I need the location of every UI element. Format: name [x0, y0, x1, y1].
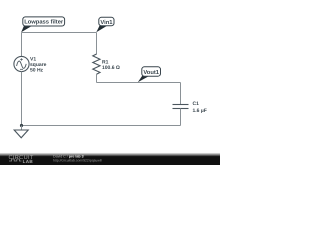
footer title text [53, 154, 84, 158]
callout "Lowpass filter" [21, 17, 64, 32]
junction dot at ground node [20, 124, 23, 127]
svg-text:http://circuitlab.com/922rpqsu: http://circuitlab.com/922rpqsuw8 [53, 158, 102, 162]
ground symbol [14, 130, 28, 138]
V1 value labels: square 50 Hz [30, 62, 47, 73]
V1 name label [30, 56, 36, 62]
CircuitLab logo [9, 155, 34, 164]
callout node Vin1 [96, 17, 114, 32]
wire middle horizontal (Vout net) [97, 82, 181, 84]
resistor R1 [93, 54, 100, 74]
svg-text:100.6 Ω: 100.6 Ω [102, 65, 120, 71]
wire R1 column upper lead [96, 33, 98, 55]
wire bottom horizontal (ground net) [22, 125, 181, 127]
wire right column lower lead [180, 109, 182, 126]
svg-text:Lowpass filter: Lowpass filter [24, 19, 64, 26]
wire left column top (top corner to V1 top) [21, 33, 23, 57]
R1 value label 100.6 Ohm [102, 65, 120, 71]
svg-text:50 Hz: 50 Hz [30, 67, 44, 73]
footer bar [0, 153, 220, 165]
wire ground stub [21, 126, 23, 131]
svg-text:C1: C1 [193, 101, 200, 107]
voltage source V1 [14, 56, 29, 71]
callout node Vout1 [138, 67, 161, 83]
C1 value label 1.6 uF [193, 108, 207, 114]
svg-text:Vout1: Vout1 [143, 70, 159, 76]
capacitor C1 [173, 105, 189, 109]
wire R1 column lower lead [96, 74, 98, 83]
C1 name label [193, 101, 200, 107]
wire top horizontal (Vin net) [22, 32, 97, 34]
wire right column upper lead to C1 [180, 83, 182, 105]
R1 name label [102, 59, 109, 65]
svg-text:1.6 µF: 1.6 µF [193, 108, 207, 114]
wire left column bottom (V1 bottom to ground junction) [21, 72, 23, 126]
svg-text:LAB: LAB [23, 159, 34, 164]
footer url text [53, 158, 102, 162]
svg-text:Vin1: Vin1 [100, 19, 113, 26]
